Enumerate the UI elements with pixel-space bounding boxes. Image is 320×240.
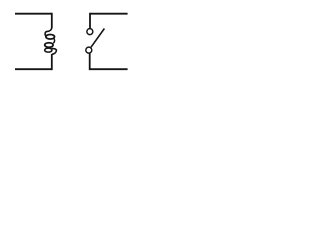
wire top lead left: [15, 13, 52, 15]
wire contact lower vertical: [89, 53, 91, 70]
wire bottom lead right: [90, 68, 128, 70]
terminal circle lower: [86, 47, 92, 53]
coil loop 3: [45, 48, 52, 52]
wire bottom lead left: [15, 68, 52, 70]
wire coil lower vertical: [51, 54, 53, 70]
wire contact upper vertical: [89, 13, 91, 28]
coil exit hook: [52, 48, 57, 54]
coil entry hook: [45, 27, 52, 36]
coil loop 1: [46, 35, 55, 40]
wire coil upper vertical: [51, 13, 53, 28]
terminal circle upper: [87, 29, 93, 35]
coil loop 2: [45, 43, 53, 48]
switch blade: [91, 29, 104, 48]
wire top lead right: [90, 13, 128, 15]
coil crossover 1-2: [53, 38, 54, 43]
